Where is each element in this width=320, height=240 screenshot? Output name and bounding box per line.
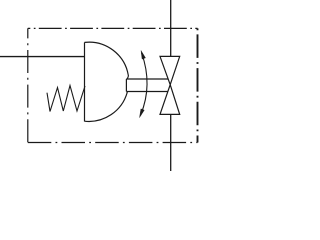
enclosure top border (dash-dot) — [28, 27, 198, 29]
spring (zigzag) — [47, 86, 85, 112]
enclosure bottom border (dash-dot) — [28, 142, 198, 144]
enclosure right border (dash-dot) — [197, 28, 199, 142]
lead line (signal line into actuator) — [0, 56, 85, 58]
adjustment arrow lower head — [140, 109, 145, 118]
valve body upper triangle — [160, 56, 180, 84]
enclosure left border (dash-dot) — [27, 28, 29, 142]
diaphragm actuator dome (half circle, flat side left) — [84, 42, 86, 121]
pipe line lower segment — [170, 114, 172, 171]
pipe line upper segment — [170, 0, 172, 56]
valve body lower triangle — [160, 85, 180, 115]
adjustment arrow upper head — [141, 51, 146, 60]
valve stem (rectangle from dome to valve) — [126, 79, 168, 92]
adjustment arrow curved shaft — [141, 53, 147, 115]
